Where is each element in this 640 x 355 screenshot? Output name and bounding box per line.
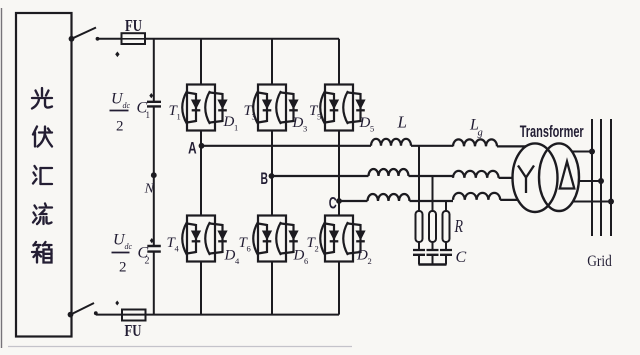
wire: leg2 bottom (271, 262, 273, 315)
wire: top DC rail (145, 38, 339, 40)
switch QS2 contact dot (94, 311, 98, 315)
switch QS1 (top) blade (72, 28, 97, 39)
wire: leg1 bottom (200, 262, 202, 315)
wire: phase B line with L and Lg coils (272, 169, 540, 178)
svg-text:D: D (224, 248, 236, 264)
fuse FU (top) body (122, 33, 146, 44)
wire: phase C line with L and Lg coils (339, 193, 536, 201)
transformer delta symbol (560, 162, 575, 189)
wire: leg3 middle (338, 131, 340, 216)
svg-text:4: 4 (175, 244, 180, 254)
svg-text:1: 1 (234, 123, 238, 133)
wire: damping tap from phase C (445, 201, 447, 212)
svg-text:FU: FU (125, 321, 142, 340)
artifact diamond above C2 (150, 238, 154, 243)
svg-text:2: 2 (145, 256, 150, 267)
grid bus line 1 (591, 119, 593, 236)
svg-text:D: D (292, 115, 304, 131)
wire: resistor to capacitor stubs (419, 242, 446, 250)
node dot grid phase 2 (598, 178, 604, 184)
transformer U1 winding fills (513, 143, 558, 212)
svg-text:R: R (454, 216, 463, 236)
IGBT T6 + diode D6 module (253, 216, 298, 262)
transformer U1 secondary winding outline (539, 143, 579, 211)
node C dot (336, 198, 342, 204)
IGBT T2 + diode D2 module (320, 216, 365, 262)
wire: leg2 top (271, 39, 273, 85)
wire: leg3 bottom (338, 262, 340, 315)
node N dot (151, 172, 157, 178)
inductor L (phase C) (368, 194, 410, 201)
wire: capacitor bottom stubs (419, 255, 446, 265)
transformer U1 primary winding outline (513, 143, 558, 212)
wire: damping tap from phase A (418, 146, 420, 211)
inductor L (phase A) (371, 139, 411, 146)
svg-text:2: 2 (119, 260, 127, 276)
svg-text:A: A (188, 139, 197, 158)
svg-text:L: L (397, 112, 407, 131)
svg-text:1: 1 (146, 110, 151, 120)
label 汇 (PV box char 3) (33, 166, 52, 184)
label 伏 (PV box char 2) (33, 127, 52, 147)
node dot grid phase 1 (589, 149, 595, 155)
svg-text:5: 5 (370, 124, 374, 134)
wire: transformer secondary to grid phase 2 (565, 180, 601, 182)
IGBT T3 + diode D3 module (253, 85, 298, 131)
label 光 (PV box char 1) (32, 88, 52, 109)
wire: transformer secondary to grid phase 3 (560, 201, 611, 203)
fuse FU (bottom) body (122, 310, 146, 321)
wire: common bus bar under capacitors (419, 263, 447, 266)
svg-text:Transformer: Transformer (520, 123, 584, 141)
node B dot (269, 173, 275, 179)
svg-text:2: 2 (368, 256, 372, 266)
label Udc/2 (lower) (112, 232, 133, 276)
wire: DC-link column mid segment (153, 106, 155, 245)
capacitor C1 plates (147, 102, 161, 107)
svg-text:D: D (293, 248, 305, 264)
edge artifact: faint left border line (1, 8, 3, 348)
inductor Lg (phase B) (453, 171, 499, 178)
svg-text:N: N (144, 182, 155, 197)
svg-text:g: g (478, 128, 483, 139)
capacitor C (phase A branch) plates (413, 250, 425, 255)
svg-text:2: 2 (116, 119, 124, 135)
svg-text:Grid: Grid (587, 253, 612, 270)
node: bottom junction dot on box edge (68, 312, 74, 318)
wire: through fuse (122, 38, 145, 40)
wire: phase A line with L and Lg coils (201, 139, 532, 147)
edge artifact: faint bottom line (8, 346, 352, 348)
svg-text:FU: FU (125, 16, 142, 35)
svg-text:6: 6 (247, 244, 251, 254)
svg-text:2: 2 (315, 244, 319, 254)
switch QS2 (bottom) blade (71, 303, 95, 315)
svg-text:3: 3 (303, 124, 307, 134)
artifact diamond above bottom rail (115, 301, 119, 306)
label Udc/2 (upper) (110, 91, 131, 135)
IGBT T5 + diode D5 module (320, 85, 365, 131)
wire: leg1 middle (module to A to module) (200, 131, 202, 216)
capacitor C (phase C branch) plates (440, 250, 452, 255)
node A dot (199, 143, 205, 149)
inductor Lg (phase C) (453, 193, 500, 200)
artifact diamond above C1 (149, 93, 153, 98)
svg-text:4: 4 (235, 256, 240, 266)
wire: DC-link column upper segment (153, 39, 155, 101)
resistor R (phase A branch) (416, 211, 423, 242)
IGBT T1 + diode D1 module (182, 85, 227, 131)
wire: leg1 top (200, 39, 202, 85)
wire: switch to fuse (top) (98, 38, 123, 40)
switch QS1 contact dot (96, 37, 100, 41)
resistor R (phase C branch) (443, 211, 450, 242)
svg-text:D: D (359, 115, 371, 131)
svg-text:dc: dc (123, 101, 131, 110)
svg-text:C: C (456, 249, 467, 266)
node: top junction dot on box edge (69, 36, 75, 42)
capacitor C2 plates (147, 246, 161, 252)
grid bus line 3 (610, 119, 612, 236)
svg-text:B: B (260, 169, 268, 188)
wire: leg2 middle (271, 131, 273, 216)
transformer Y (wye) symbol (518, 166, 534, 194)
IGBT T4 + diode D4 module (182, 216, 227, 262)
wire: DC-link column lower segment (153, 252, 155, 315)
inductor L (phase B) (369, 169, 409, 176)
svg-text:dc: dc (125, 242, 133, 251)
artifact diamond below top fuse (115, 52, 119, 58)
wire: through bottom fuse and bottom DC rail (123, 314, 340, 316)
inductor Lg (phase A) (453, 139, 497, 146)
node dot grid phase 3 (608, 199, 614, 205)
wire: leg3 top (338, 39, 340, 85)
svg-text:6: 6 (304, 256, 308, 266)
PV combiner box (16, 13, 72, 337)
svg-text:D: D (223, 114, 235, 130)
svg-text:1: 1 (177, 112, 181, 122)
svg-text:5: 5 (317, 112, 321, 122)
grid bus line 2 (600, 119, 602, 236)
label 流 (PV box char 4) (33, 204, 52, 225)
capacitor C (phase B branch) plates (427, 250, 439, 255)
wire: transformer secondary to grid phase 1 (560, 151, 592, 153)
svg-text:3: 3 (252, 112, 256, 122)
svg-text:C: C (329, 193, 337, 212)
resistor R (phase B branch) (429, 211, 436, 242)
wire: switch to fuse (bottom) (96, 314, 123, 316)
wire: damping tap from phase B (432, 176, 434, 211)
svg-text:D: D (356, 248, 368, 264)
label 箱 (PV box char 5) (32, 242, 52, 263)
